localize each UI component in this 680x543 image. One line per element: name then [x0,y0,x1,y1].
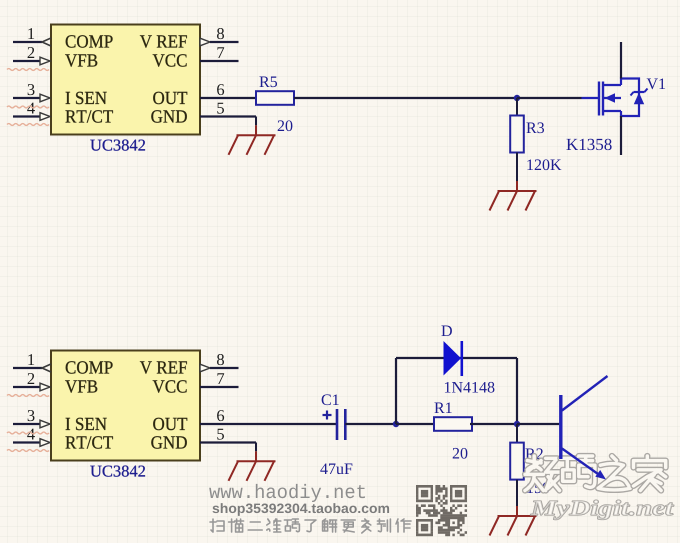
resistor R1 [434,402,472,458]
watermark CJK line: scan QR to learn more [210,519,411,533]
IC U2 designator UC3842 [90,466,145,477]
IC U2 pin 4 wire [13,429,50,447]
IC U2 pin 2 wire [13,373,50,391]
wire node A to gate [517,97,582,99]
IC U1 pin 4 wire [13,103,50,121]
IC U2 UC3842 box [51,351,200,461]
resistor R2 [510,443,549,494]
wire node B up [395,358,397,424]
ground (below R3) [490,153,537,211]
wire node C to base [517,423,559,425]
no-ERC marker [7,106,49,108]
wire R1 to node C [470,423,517,425]
watermark shop35392304.taobao.com [212,503,389,516]
ground (pin 5, U1) [229,117,276,155]
label V1 [647,78,665,89]
capacitor C1 47uF [320,394,352,474]
transistor V1 MOSFET K1358 [582,79,648,117]
watermark CJK big: shuma zhijia [525,456,666,491]
ground (pin 5, U2) [229,443,276,481]
transistor Q1 NPN [561,376,608,480]
wire node C to R2 [516,424,518,443]
IC U2 pin 6 wire [217,410,224,421]
node A junction [514,95,520,101]
ground (below R2) [490,480,537,536]
no-ERC marker [7,124,49,126]
node B junction [393,421,399,427]
wire source down [620,116,622,155]
wire node B to R1 [396,423,434,425]
watermark www.haodiy.net [209,484,365,502]
IC U2 pin 3 wire [13,410,50,428]
IC U2 pin 8 wire [200,354,239,372]
IC U1 designator UC3842 [90,140,145,151]
resistor R5 [256,77,294,132]
no-ERC marker [7,395,49,397]
no-ERC marker [7,432,49,434]
label K1358 [566,139,611,150]
IC U1 pin 1 wire [13,28,51,46]
QR code [416,485,467,536]
resistor R3 [510,116,561,171]
wire drain up [620,42,622,79]
IC U2 pin 5 wire [217,429,224,440]
wire C1 to node B [345,423,396,425]
IC U1 pin 3 wire [13,84,50,102]
wire pin5 GND U2 [200,441,256,443]
IC U1 UC3842 box [51,25,200,135]
wire rail down to node C [516,358,518,424]
wire diode rail [396,357,517,359]
no-ERC marker [7,69,49,71]
IC U1 pin 2 wire [13,47,50,65]
IC U1 pin 5 wire [217,103,224,114]
no-ERC marker [7,450,49,452]
watermark MyDigit.net [531,500,674,520]
IC U1 pin 8 wire [200,28,239,46]
IC U2 pin 1 wire [13,354,51,372]
wire R5 to node A [294,97,517,99]
node C junction [514,421,520,427]
IC U2 pin 7 wire [200,373,239,387]
wire pin5 GND [200,115,256,117]
IC U1 pin 7 wire [200,47,239,61]
IC U1 pin 6 wire [217,84,224,95]
wire node A to R3 [516,98,518,116]
wire pin6 OUT to R5 [200,97,256,99]
diode D 1N4148 [441,326,494,393]
wire pin6 OUT to C1 [200,423,337,425]
